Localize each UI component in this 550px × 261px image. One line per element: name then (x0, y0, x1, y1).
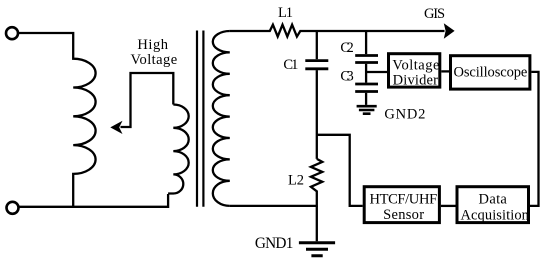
svg-text:Data: Data (479, 192, 508, 208)
svg-text:Divider: Divider (393, 73, 438, 89)
svg-text:C2: C2 (340, 40, 353, 56)
svg-text:GND2: GND2 (384, 107, 425, 123)
svg-text:Voltage: Voltage (130, 52, 177, 68)
svg-text:C3: C3 (340, 69, 353, 85)
svg-text:High: High (137, 37, 168, 53)
svg-text:L1: L1 (278, 5, 293, 21)
svg-text:GND1: GND1 (255, 235, 294, 252)
svg-text:Sensor: Sensor (383, 207, 424, 223)
svg-text:GIS: GIS (424, 6, 445, 22)
svg-text:Oscilloscope: Oscilloscope (453, 64, 527, 80)
svg-text:Acquisition: Acquisition (461, 208, 530, 224)
svg-text:L2: L2 (288, 172, 304, 188)
svg-text:C1: C1 (283, 57, 298, 73)
svg-text:Voltage: Voltage (392, 58, 439, 74)
svg-text:HTCF/UHF: HTCF/UHF (369, 192, 437, 208)
